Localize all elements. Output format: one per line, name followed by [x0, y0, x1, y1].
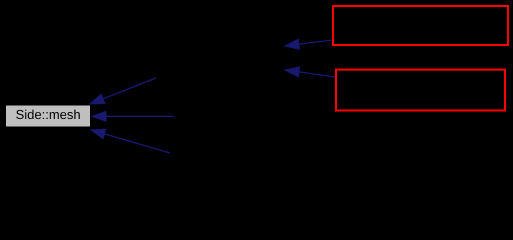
truncated caller node box 2 (red border)	[336, 70, 505, 111]
edge from hidden caller 1 to Side::mesh (arrow A)	[90, 78, 156, 104]
edge from red box 1 to hidden caller (arrow D)	[285, 39, 333, 49]
edge from hidden caller 2 to Side::mesh (arrow B)	[92, 111, 173, 121]
node Side::mesh (current node, grey)	[6, 105, 91, 127]
truncated caller node box 1 (red border)	[333, 6, 508, 45]
edge from red box 2 to hidden caller (arrow E)	[285, 67, 335, 77]
edge from hidden caller 3 to Side::mesh (arrow C)	[91, 129, 170, 153]
